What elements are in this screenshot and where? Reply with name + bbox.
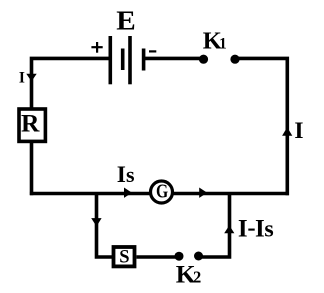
arrow Is (right) on middle wire xyxy=(124,188,132,198)
switch K1 right contact dot xyxy=(230,55,239,64)
svg-text:G: G xyxy=(156,181,169,203)
svg-text:I: I xyxy=(294,118,303,144)
svg-text:R: R xyxy=(21,108,40,137)
label S inside box xyxy=(119,247,129,267)
wire K2 to right branch corner and up to middle wire xyxy=(199,192,230,257)
arrow I (down) on left wire xyxy=(26,74,36,82)
svg-text:I: I xyxy=(255,216,265,243)
svg-text:s: s xyxy=(126,162,135,187)
svg-text:I: I xyxy=(19,70,25,87)
svg-text:s: s xyxy=(264,217,273,243)
svg-text:1: 1 xyxy=(219,36,227,53)
arrow (right) on middle wire after G xyxy=(199,188,207,198)
wire K1 to top-right corner and down (right side) xyxy=(235,58,287,195)
wire top-left corner (from R top up and right to battery +) xyxy=(32,58,111,108)
svg-text:S: S xyxy=(119,247,129,267)
resistor R box xyxy=(19,109,45,141)
battery E short plate 1 xyxy=(121,49,125,71)
label K1 xyxy=(203,28,227,55)
label Is xyxy=(117,162,135,188)
battery E long plate 2 xyxy=(128,36,132,84)
arrow I (up) on right wire xyxy=(282,127,292,135)
battery E short plate 2 xyxy=(142,49,146,71)
svg-text:I: I xyxy=(117,162,126,188)
box S xyxy=(114,247,135,266)
wire S box to K2 xyxy=(137,255,180,259)
label - (minus) xyxy=(149,50,156,52)
label I-Is xyxy=(238,216,274,243)
label + xyxy=(91,42,102,53)
label E xyxy=(116,4,136,35)
svg-text:2: 2 xyxy=(193,267,201,286)
switch K2 right contact dot xyxy=(194,252,203,261)
left wire below R to middle wire xyxy=(30,141,34,195)
label I (right) xyxy=(294,118,303,144)
middle wire (galvanometer to right wire) xyxy=(172,192,289,196)
galvanometer G xyxy=(151,181,173,203)
arrow I-Is (up) on right branch xyxy=(224,225,234,233)
label R inside resistor xyxy=(21,108,40,137)
label K2 xyxy=(176,259,201,288)
battery E long plate 1 xyxy=(109,36,113,84)
svg-text:E: E xyxy=(116,4,136,35)
label I (left) xyxy=(19,70,25,87)
switch K2 left contact dot xyxy=(175,252,184,261)
middle wire (left part to galvanometer) xyxy=(30,192,151,196)
svg-text:I: I xyxy=(238,216,248,243)
arrow (down) on left branch xyxy=(91,218,101,226)
wire battery to K1 xyxy=(144,57,204,61)
switch K1 left contact dot xyxy=(199,55,208,64)
left branch wire down and to S box xyxy=(97,192,114,257)
